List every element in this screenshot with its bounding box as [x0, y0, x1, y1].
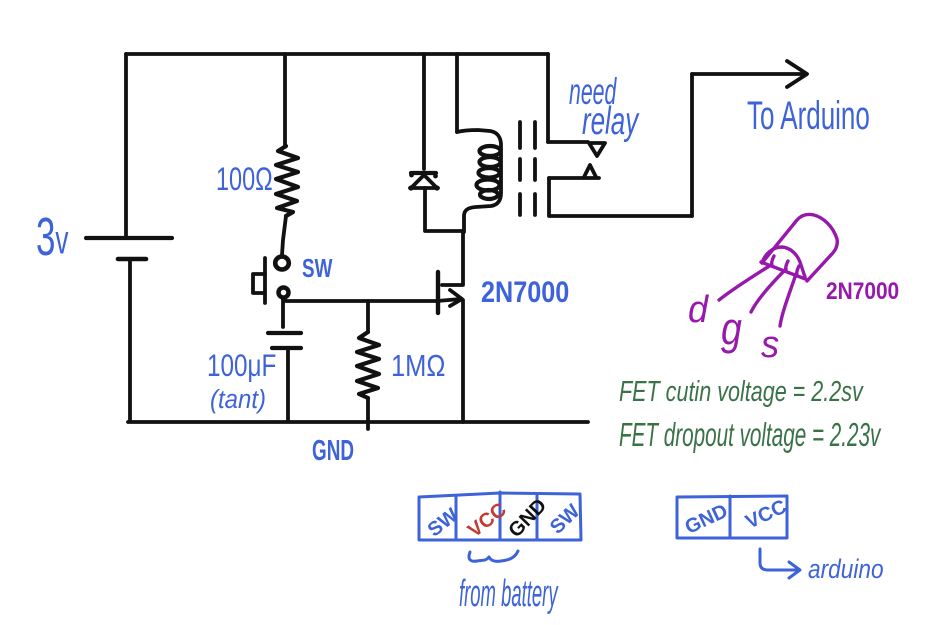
svg-text:SW: SW: [302, 254, 333, 283]
svg-text:100μF: 100μF: [207, 348, 276, 383]
svg-text:GND: GND: [504, 495, 551, 542]
svg-text:3v: 3v: [36, 206, 69, 267]
svg-text:FET cutin voltage = 2.2sv: FET cutin voltage = 2.2sv: [619, 376, 864, 408]
svg-text:2N7000: 2N7000: [826, 278, 899, 305]
svg-text:d: d: [688, 287, 709, 330]
svg-text:g: g: [721, 304, 742, 354]
svg-text:1MΩ: 1MΩ: [391, 349, 445, 384]
svg-text:100Ω: 100Ω: [216, 160, 273, 197]
svg-text:To Arduino: To Arduino: [747, 93, 870, 138]
svg-text:GND: GND: [312, 435, 354, 467]
svg-text:from battery: from battery: [459, 573, 559, 615]
svg-text:relay: relay: [582, 100, 640, 144]
svg-text:FET dropout voltage = 2.23v: FET dropout voltage = 2.23v: [619, 416, 882, 453]
svg-text:2N7000: 2N7000: [481, 275, 569, 309]
svg-text:VCC: VCC: [742, 496, 790, 534]
svg-text:arduino: arduino: [808, 555, 884, 584]
svg-text:s: s: [761, 322, 779, 365]
svg-text:(tant): (tant): [210, 385, 266, 414]
svg-text:VCC: VCC: [464, 499, 511, 542]
svg-text:GND: GND: [682, 500, 732, 539]
svg-text:SW: SW: [546, 500, 585, 538]
